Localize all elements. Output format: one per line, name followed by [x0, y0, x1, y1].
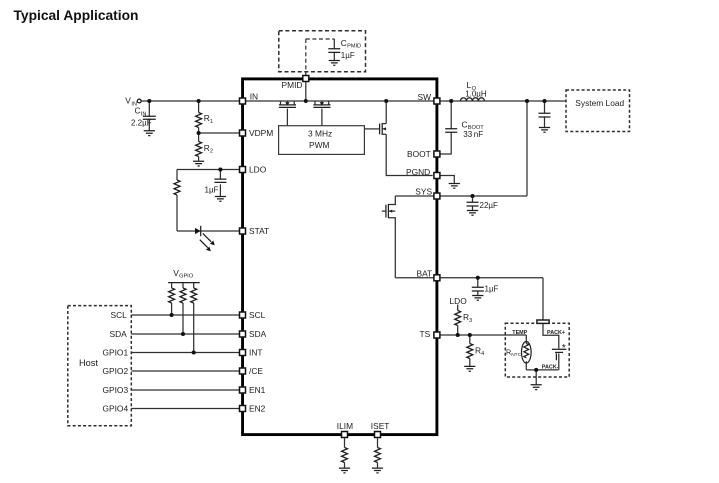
block 3MHz PWM U1 [279, 126, 365, 155]
svg-text:GPIO: GPIO [179, 274, 194, 280]
label 1uF LDO [205, 186, 219, 195]
svg-text:PGND: PGND [406, 167, 430, 177]
pin SYS [434, 193, 440, 199]
wire LDO R3 branch [457, 305, 459, 336]
svg-text:4: 4 [481, 351, 484, 357]
svg-text:NTC: NTC [511, 352, 521, 358]
node LDO cap junction [218, 167, 222, 171]
pin label INT [249, 348, 263, 358]
node R1 junction [197, 99, 201, 103]
wire ILIM resistor [344, 438, 346, 468]
pin PGND [434, 173, 440, 179]
label R3 [463, 312, 472, 324]
label RNTC [506, 348, 522, 359]
pin label PMID [282, 80, 303, 90]
label host GPIO3 [103, 385, 129, 395]
wire sync FET drain from SW rail [385, 101, 387, 124]
pin EN2 [240, 406, 246, 412]
ground R-ISET [372, 468, 383, 473]
thermistor RNTC [522, 342, 532, 364]
label VIN [125, 96, 137, 108]
svg-text:PWM: PWM [309, 140, 329, 150]
svg-text:PMID: PMID [282, 80, 303, 90]
LED D1 [195, 226, 215, 252]
wire pack bottom rail [526, 369, 558, 371]
wire VGPIO bus [168, 283, 200, 288]
wire SYS rail [395, 101, 527, 196]
svg-text:BOOT: BOOT [407, 149, 431, 159]
label 1uF BAT [485, 284, 499, 293]
pin EN1 [240, 387, 246, 393]
battery cell B1 [552, 349, 566, 360]
svg-text:GPIO4: GPIO4 [103, 404, 129, 414]
resistor RP3 pullup [191, 288, 197, 303]
pin label SCL [249, 310, 266, 320]
svg-text:ILIM: ILIM [337, 421, 353, 431]
wire pack cell negative lead [558, 353, 560, 370]
wire system load cap [544, 101, 546, 127]
svg-text:GPIO1: GPIO1 [103, 348, 129, 358]
wire pack PACK+ lead [543, 324, 559, 349]
pin IN [240, 98, 246, 104]
ground C-BAT [472, 296, 483, 301]
node load cap junction [542, 99, 546, 103]
svg-text:IN: IN [250, 92, 258, 102]
svg-text:2.2µF: 2.2µF [131, 118, 152, 127]
svg-text:SYS: SYS [415, 186, 432, 196]
svg-text:3: 3 [469, 318, 472, 324]
svg-text:1.0µH: 1.0µH [465, 89, 487, 98]
ground CIN [144, 131, 155, 136]
pin label EN1 [249, 385, 266, 395]
svg-text:PACK-: PACK- [542, 364, 559, 370]
IC U2 body border [243, 79, 437, 435]
capacitor C-LOAD [539, 113, 551, 117]
node CIN junction [147, 99, 151, 103]
pin label SW [418, 92, 432, 102]
label LDO net [450, 296, 468, 306]
pin label TS [420, 329, 431, 339]
node SDA pullup junction [181, 332, 185, 336]
svg-text:INT: INT [249, 348, 263, 358]
wire CBOOT branch to BOOT pin [440, 101, 451, 154]
pin label VDPM [249, 128, 273, 138]
wire BAT rail [395, 278, 543, 320]
label host SDA [110, 329, 128, 339]
svg-text:EN1: EN1 [249, 385, 266, 395]
pin VDPM [240, 130, 246, 136]
connector pack terminal [537, 320, 549, 323]
node BAT 1uF junction [476, 276, 480, 280]
label host GPIO2 [103, 366, 129, 376]
svg-text:C: C [341, 38, 347, 48]
label CIN [135, 106, 147, 118]
svg-text:2: 2 [210, 149, 213, 155]
resistor R3 [455, 311, 461, 326]
resistor R-ISET [375, 448, 381, 463]
wire CIN tap [148, 101, 150, 131]
svg-text:C: C [135, 106, 141, 116]
node VIN terminal [137, 99, 141, 103]
wire CPMID cap leads [333, 39, 335, 60]
node R4-TS junction [468, 333, 472, 337]
label LO [467, 80, 477, 92]
svg-text:Typical Application: Typical Application [14, 8, 139, 23]
svg-text:3 MHz: 3 MHz [308, 128, 332, 138]
transistor Q2 (high-side switch PFET) [313, 101, 330, 107]
wire VIN input to IN pin and SW output rail (node VIN / node SW) [141, 100, 566, 102]
wire SCL line [131, 314, 239, 316]
wire mosfet gates to PWM block [287, 109, 322, 126]
svg-text:22µF: 22µF [480, 201, 499, 210]
transistor Q4 (battery FET) [382, 196, 396, 278]
pin label STAT [249, 226, 269, 236]
wire INT line [131, 352, 239, 354]
svg-text:SCL: SCL [111, 310, 128, 320]
wire LDO net [177, 170, 239, 197]
label 1.0uH [465, 89, 487, 98]
wire PGND external to ground [440, 176, 454, 184]
wire /CE line [131, 370, 239, 372]
label host GPIO1 [103, 348, 129, 358]
pin label LDO [249, 165, 267, 175]
wire EN2 line [131, 408, 239, 410]
svg-text:TEMP: TEMP [512, 330, 527, 336]
node PMID junction [304, 99, 308, 103]
svg-text:33 nF: 33 nF [463, 130, 483, 139]
capacitor C-SYS 22uF [467, 202, 479, 206]
svg-text:System Load: System Load [575, 98, 624, 108]
ground R2 [193, 161, 204, 166]
pin label /CE [249, 366, 263, 376]
wire R1 top tap [199, 101, 240, 133]
svg-text:EN2: EN2 [249, 404, 266, 414]
label R4 [475, 345, 484, 357]
pin label BOOT [407, 149, 431, 159]
wire sync FET source to PGND pin [386, 134, 433, 175]
pin STAT [240, 228, 246, 234]
label System Load [575, 98, 624, 108]
label CPMID [341, 38, 361, 50]
label Host [79, 358, 98, 368]
ground R-ILIM [339, 468, 350, 473]
node pack ground junction [534, 368, 538, 372]
pin label IN [250, 92, 258, 102]
svg-text:GPIO3: GPIO3 [103, 385, 129, 395]
svg-text:LDO: LDO [249, 165, 267, 175]
svg-text:C: C [462, 119, 468, 129]
svg-text:1: 1 [210, 119, 213, 125]
svg-text:SDA: SDA [249, 329, 267, 339]
wire R4 branch [469, 335, 471, 366]
pin BOOT [434, 151, 440, 157]
box Host dashed [68, 306, 132, 426]
svg-text:IN: IN [141, 111, 147, 117]
ground C-LOAD [539, 128, 550, 133]
svg-text:PACK+: PACK+ [547, 330, 565, 336]
pin label SDA [249, 329, 267, 339]
wire pack ground stem [535, 370, 537, 385]
wire TS line [433, 334, 526, 336]
node R3-TS junction [456, 333, 460, 337]
wire ISET resistor [377, 438, 379, 468]
pin /CE [240, 368, 246, 374]
label PACK- [542, 364, 559, 370]
svg-text:STAT: STAT [249, 226, 269, 236]
label asterisk [562, 342, 566, 354]
inductor LO [460, 98, 484, 101]
label R1 [204, 113, 213, 125]
box battery pack dashed [505, 323, 569, 377]
wire EN1 line [131, 389, 239, 391]
svg-text:BAT: BAT [417, 269, 433, 279]
pin SDA [240, 331, 246, 337]
node 22uF junction [470, 194, 474, 198]
wire BAT 1uF tap [477, 278, 479, 296]
node VDPM junction [197, 131, 201, 135]
label 1uF PMID [341, 51, 355, 60]
wire SDA line [131, 333, 239, 335]
pin SW [434, 98, 440, 104]
svg-text:LDO: LDO [450, 296, 468, 306]
pin label ISET [371, 421, 390, 431]
wire PMID pin to internal rail [305, 79, 307, 102]
label 33nF [463, 130, 483, 139]
label host SCL [111, 310, 128, 320]
label PACK+ [547, 330, 565, 336]
pin label BAT [417, 269, 433, 279]
capacitor C-BAT 1uF [472, 287, 484, 291]
pin BAT [434, 275, 440, 281]
pin INT [240, 350, 246, 356]
svg-text:TS: TS [420, 329, 431, 339]
pin label PGND [406, 167, 430, 177]
resistor R-ILIM [342, 448, 348, 463]
box System Load dashed [566, 90, 630, 132]
capacitor C-LDO 1uF [214, 179, 226, 182]
pin ISET [375, 432, 381, 438]
pin PMID [303, 76, 309, 82]
capacitor CBOOT [445, 129, 457, 133]
resistor RP1 pullup [169, 288, 175, 303]
resistor R4 [467, 344, 473, 359]
wire 22uF tap [472, 196, 474, 210]
svg-text:SCL: SCL [249, 310, 266, 320]
ground C-LDO [215, 197, 226, 202]
node CBOOT junction [449, 99, 453, 103]
box CPMID dashed [279, 31, 366, 75]
node SCL pullup junction [170, 313, 174, 317]
resistor R-STAT [174, 180, 180, 195]
ground C-SYS [467, 211, 478, 216]
node SYS-SW junction [525, 99, 529, 103]
capacitor CPMID [328, 49, 340, 53]
svg-text:SDA: SDA [110, 329, 128, 339]
label TEMP [512, 330, 527, 336]
wire NTC leads [525, 335, 527, 370]
label CBOOT [462, 119, 485, 131]
label 22uF [480, 201, 499, 210]
svg-text:VDPM: VDPM [249, 128, 273, 138]
svg-text:*: * [562, 342, 566, 354]
resistor R2 [196, 142, 202, 157]
wire R2 branch [198, 133, 200, 161]
capacitor CIN [143, 116, 156, 119]
ground CPMID [329, 61, 340, 66]
resistor RP2 pullup [180, 288, 186, 303]
ground PGND [449, 184, 460, 189]
svg-text:PMID: PMID [347, 44, 361, 50]
label host GPIO4 [103, 404, 129, 414]
svg-text:ISET: ISET [371, 421, 390, 431]
svg-text:SW: SW [418, 92, 432, 102]
svg-text:1µF: 1µF [485, 284, 499, 293]
pin label SYS [415, 186, 432, 196]
ground R4 [464, 366, 475, 371]
svg-text:GPIO2: GPIO2 [103, 366, 129, 376]
label 2.2uF [131, 118, 152, 127]
label R2 [204, 143, 213, 155]
pin label EN2 [249, 404, 266, 414]
resistor R1 [196, 113, 202, 128]
svg-text:V: V [125, 96, 131, 106]
svg-text:1µF: 1µF [341, 51, 355, 60]
transistor Q1 (reverse-blocking PFET) [279, 101, 296, 107]
svg-text:1µF: 1µF [205, 186, 219, 195]
node Q3 drain junction [384, 99, 388, 103]
title [14, 8, 139, 23]
pin ILIM [342, 432, 348, 438]
pin label ILIM [337, 421, 353, 431]
svg-text:/CE: /CE [249, 366, 263, 376]
pin TS [434, 332, 440, 338]
ground pack [531, 385, 542, 390]
label VGPIO [173, 268, 194, 280]
svg-text:Host: Host [79, 358, 98, 368]
pin LDO [240, 167, 246, 173]
wire STAT branch with resistor [177, 170, 239, 232]
node INT pullup junction [192, 350, 196, 354]
transistor Q3 (sync FET) [364, 123, 386, 135]
wire pullup legs [172, 303, 194, 353]
pin SCL [240, 312, 246, 318]
